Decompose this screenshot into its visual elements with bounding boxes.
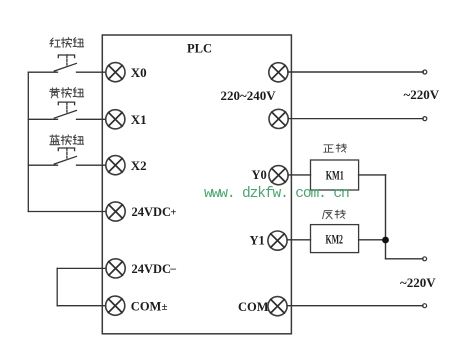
wire: KM1 to right vertical — [359, 174, 386, 176]
svg-text:+: + — [170, 207, 176, 219]
svg-text:COM: COM — [238, 300, 269, 314]
wire: KM2 to junction — [359, 239, 386, 241]
svg-text:~220V: ~220V — [404, 87, 440, 102]
wire: bus to yellow button — [28, 118, 57, 120]
wire: bus to red button — [28, 71, 57, 73]
wire: left bus vertical — [27, 72, 29, 211]
terminal X1 — [106, 110, 125, 129]
terminal L power — [269, 63, 288, 82]
wire: blue button to X2 — [77, 164, 106, 166]
wire: Y0 to KM1 — [288, 174, 310, 176]
terminal X2 — [106, 156, 125, 175]
terminal COM+- left — [106, 296, 125, 315]
wire: L phase out — [288, 71, 423, 73]
wire: N out — [288, 118, 423, 120]
terminal X0 — [106, 63, 125, 82]
svg-text:X0: X0 — [131, 65, 147, 80]
svg-text:X2: X2 — [131, 158, 147, 173]
PLC enclosure box — [102, 35, 291, 334]
terminal N power — [269, 109, 288, 128]
svg-text:X1: X1 — [131, 112, 147, 127]
terminal 24VDC- — [106, 259, 125, 278]
wire: drop to 220V line — [386, 258, 424, 260]
terminal COM right — [268, 297, 287, 316]
wire: bus to 24VDC+ — [28, 211, 106, 213]
terminal 24VDC+ — [106, 202, 125, 221]
svg-text:24VDC: 24VDC — [132, 262, 172, 276]
svg-text:KM2: KM2 — [326, 232, 344, 247]
open terminal dot COM — [423, 304, 427, 308]
label yellow button (huang an niu) — [50, 88, 84, 98]
wire: red button to X0 — [77, 71, 106, 73]
svg-text:Y1: Y1 — [250, 234, 265, 248]
svg-text:~220V: ~220V — [400, 275, 436, 290]
wire: Y1 to KM2 — [287, 239, 310, 241]
svg-text:–: – — [169, 263, 176, 275]
open terminal dot N — [423, 117, 427, 121]
wire: 24VDC- to link — [57, 267, 106, 269]
label blue button (lan an niu) — [50, 135, 84, 145]
wire: COM out — [287, 305, 423, 307]
open terminal dot motor line — [423, 257, 427, 261]
contactor coil KM1 — [311, 160, 359, 190]
wire: bus to blue button — [28, 164, 57, 166]
terminal Y0 — [269, 166, 288, 185]
svg-text:±: ± — [162, 301, 168, 313]
pushbutton SB3 (blue) — [54, 148, 76, 164]
pushbutton SB1 (red) — [54, 55, 76, 71]
wire: right vertical drop — [385, 175, 387, 259]
svg-text:PLC: PLC — [187, 42, 212, 56]
junction dot — [382, 237, 389, 244]
wire: link vertical — [56, 268, 58, 305]
open terminal dot L — [423, 70, 427, 74]
terminal Y1 — [268, 231, 287, 250]
svg-text:24VDC: 24VDC — [132, 205, 172, 219]
svg-text:COM: COM — [131, 299, 162, 313]
contactor coil KM2 — [311, 225, 359, 253]
svg-text:KM1: KM1 — [326, 167, 344, 182]
label forward (zheng zhuan) — [324, 144, 347, 152]
label red button (hong an niu) — [50, 38, 83, 48]
wire: link to COM+- — [57, 305, 105, 307]
label reverse (fan zhuan) — [323, 210, 346, 219]
wire: yellow button to X1 — [77, 118, 106, 120]
pushbutton SB2 (yellow) — [54, 102, 76, 118]
svg-text:Y0: Y0 — [252, 168, 267, 182]
svg-text:www. dzkfw. com. cn: www. dzkfw. com. cn — [204, 186, 349, 202]
svg-text:220~240V: 220~240V — [221, 88, 277, 103]
